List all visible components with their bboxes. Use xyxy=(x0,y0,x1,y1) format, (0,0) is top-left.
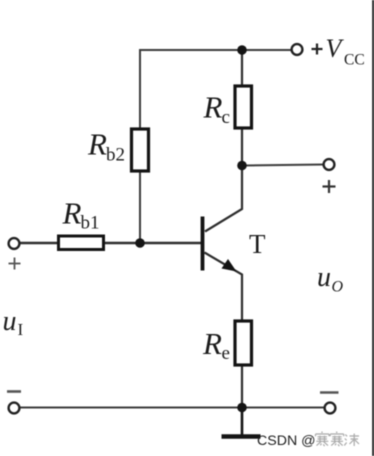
svg-text:T: T xyxy=(249,229,266,259)
svg-text:R: R xyxy=(203,90,223,125)
svg-text:R: R xyxy=(87,127,107,162)
label +Vcc xyxy=(312,44,323,55)
terminal input xyxy=(9,238,20,249)
terminal output xyxy=(324,159,335,170)
node dot collector/output xyxy=(237,161,247,171)
watermark CJK glyph 2 xyxy=(330,432,344,447)
terminal bottom left xyxy=(9,403,20,414)
svg-text:b1: b1 xyxy=(81,213,100,234)
minus sign bottom right xyxy=(320,391,339,394)
wire Rb2 lower segment down to base node xyxy=(139,171,141,243)
node dot base xyxy=(135,238,145,248)
svg-text:I: I xyxy=(18,320,24,339)
ground xyxy=(241,408,244,435)
resistor Rb2 xyxy=(132,129,149,171)
terminal +Vcc xyxy=(292,44,303,55)
svg-text:CSDN @: CSDN @ xyxy=(257,433,316,449)
svg-text:u: u xyxy=(317,262,331,293)
wire output from collector node to output terminal xyxy=(242,165,324,166)
svg-text:u: u xyxy=(3,306,17,337)
node dot top rail xyxy=(237,45,247,55)
svg-text:e: e xyxy=(222,343,230,364)
resistor Re xyxy=(235,321,252,365)
plus sign input xyxy=(9,258,21,270)
node dot emitter/bottom rail xyxy=(237,403,247,413)
wire emitter slant and vertical down to bottom rail xyxy=(205,253,243,408)
wire bottom rail xyxy=(20,407,325,409)
svg-text:R: R xyxy=(202,326,222,361)
wire collector branch vertical + slant into transistor xyxy=(205,50,242,232)
svg-text:c: c xyxy=(222,107,230,128)
plus sign output xyxy=(323,180,336,193)
svg-text:b2: b2 xyxy=(106,145,125,166)
svg-text:CC: CC xyxy=(344,52,365,69)
transistor T base bar xyxy=(201,217,205,271)
resistor Rb1 xyxy=(59,236,104,250)
terminal bottom right xyxy=(325,403,336,414)
right edge border line xyxy=(372,0,374,456)
watermark CJK glyph 1 xyxy=(316,432,330,447)
minus sign bottom left xyxy=(7,390,21,393)
svg-text:R: R xyxy=(62,196,82,231)
watermark CJK glyph 3 xyxy=(344,434,359,447)
svg-text:O: O xyxy=(332,279,344,296)
resistor Rc xyxy=(235,86,252,128)
transistor T emitter arrow xyxy=(222,259,237,272)
wire top rail from Rb2 corner to +Vcc terminal xyxy=(140,50,292,236)
wire base horizontal from input to base bar xyxy=(19,242,201,244)
